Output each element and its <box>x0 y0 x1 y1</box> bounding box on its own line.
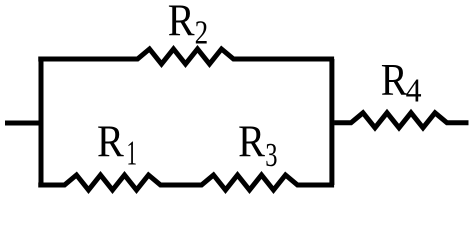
svg-text:3: 3 <box>265 137 277 174</box>
svg-text:R: R <box>381 56 408 106</box>
wire: left vertical branch (node joining R2 branch and R1-R3 branch) <box>39 59 44 185</box>
svg-text:1: 1 <box>127 135 138 172</box>
wire: right vertical branch (node joining branches to R4) <box>329 59 334 185</box>
svg-text:R: R <box>168 0 195 46</box>
resistor R4 (series output zigzag) <box>334 113 468 128</box>
resistor R1 (bottom branch left zigzag) <box>38 175 181 190</box>
svg-text:4: 4 <box>406 73 422 110</box>
wire: left input stub <box>5 121 41 126</box>
svg-text:R: R <box>97 117 124 167</box>
resistor R2 (top branch, zigzag in top rail) <box>38 49 334 64</box>
svg-text:2: 2 <box>195 14 209 51</box>
label R3 <box>238 117 277 174</box>
svg-text:R: R <box>238 117 265 167</box>
resistor R3 (bottom branch right zigzag) <box>181 175 334 190</box>
label R1 <box>97 117 137 173</box>
label R2 <box>168 0 208 51</box>
label R4 <box>381 56 422 109</box>
